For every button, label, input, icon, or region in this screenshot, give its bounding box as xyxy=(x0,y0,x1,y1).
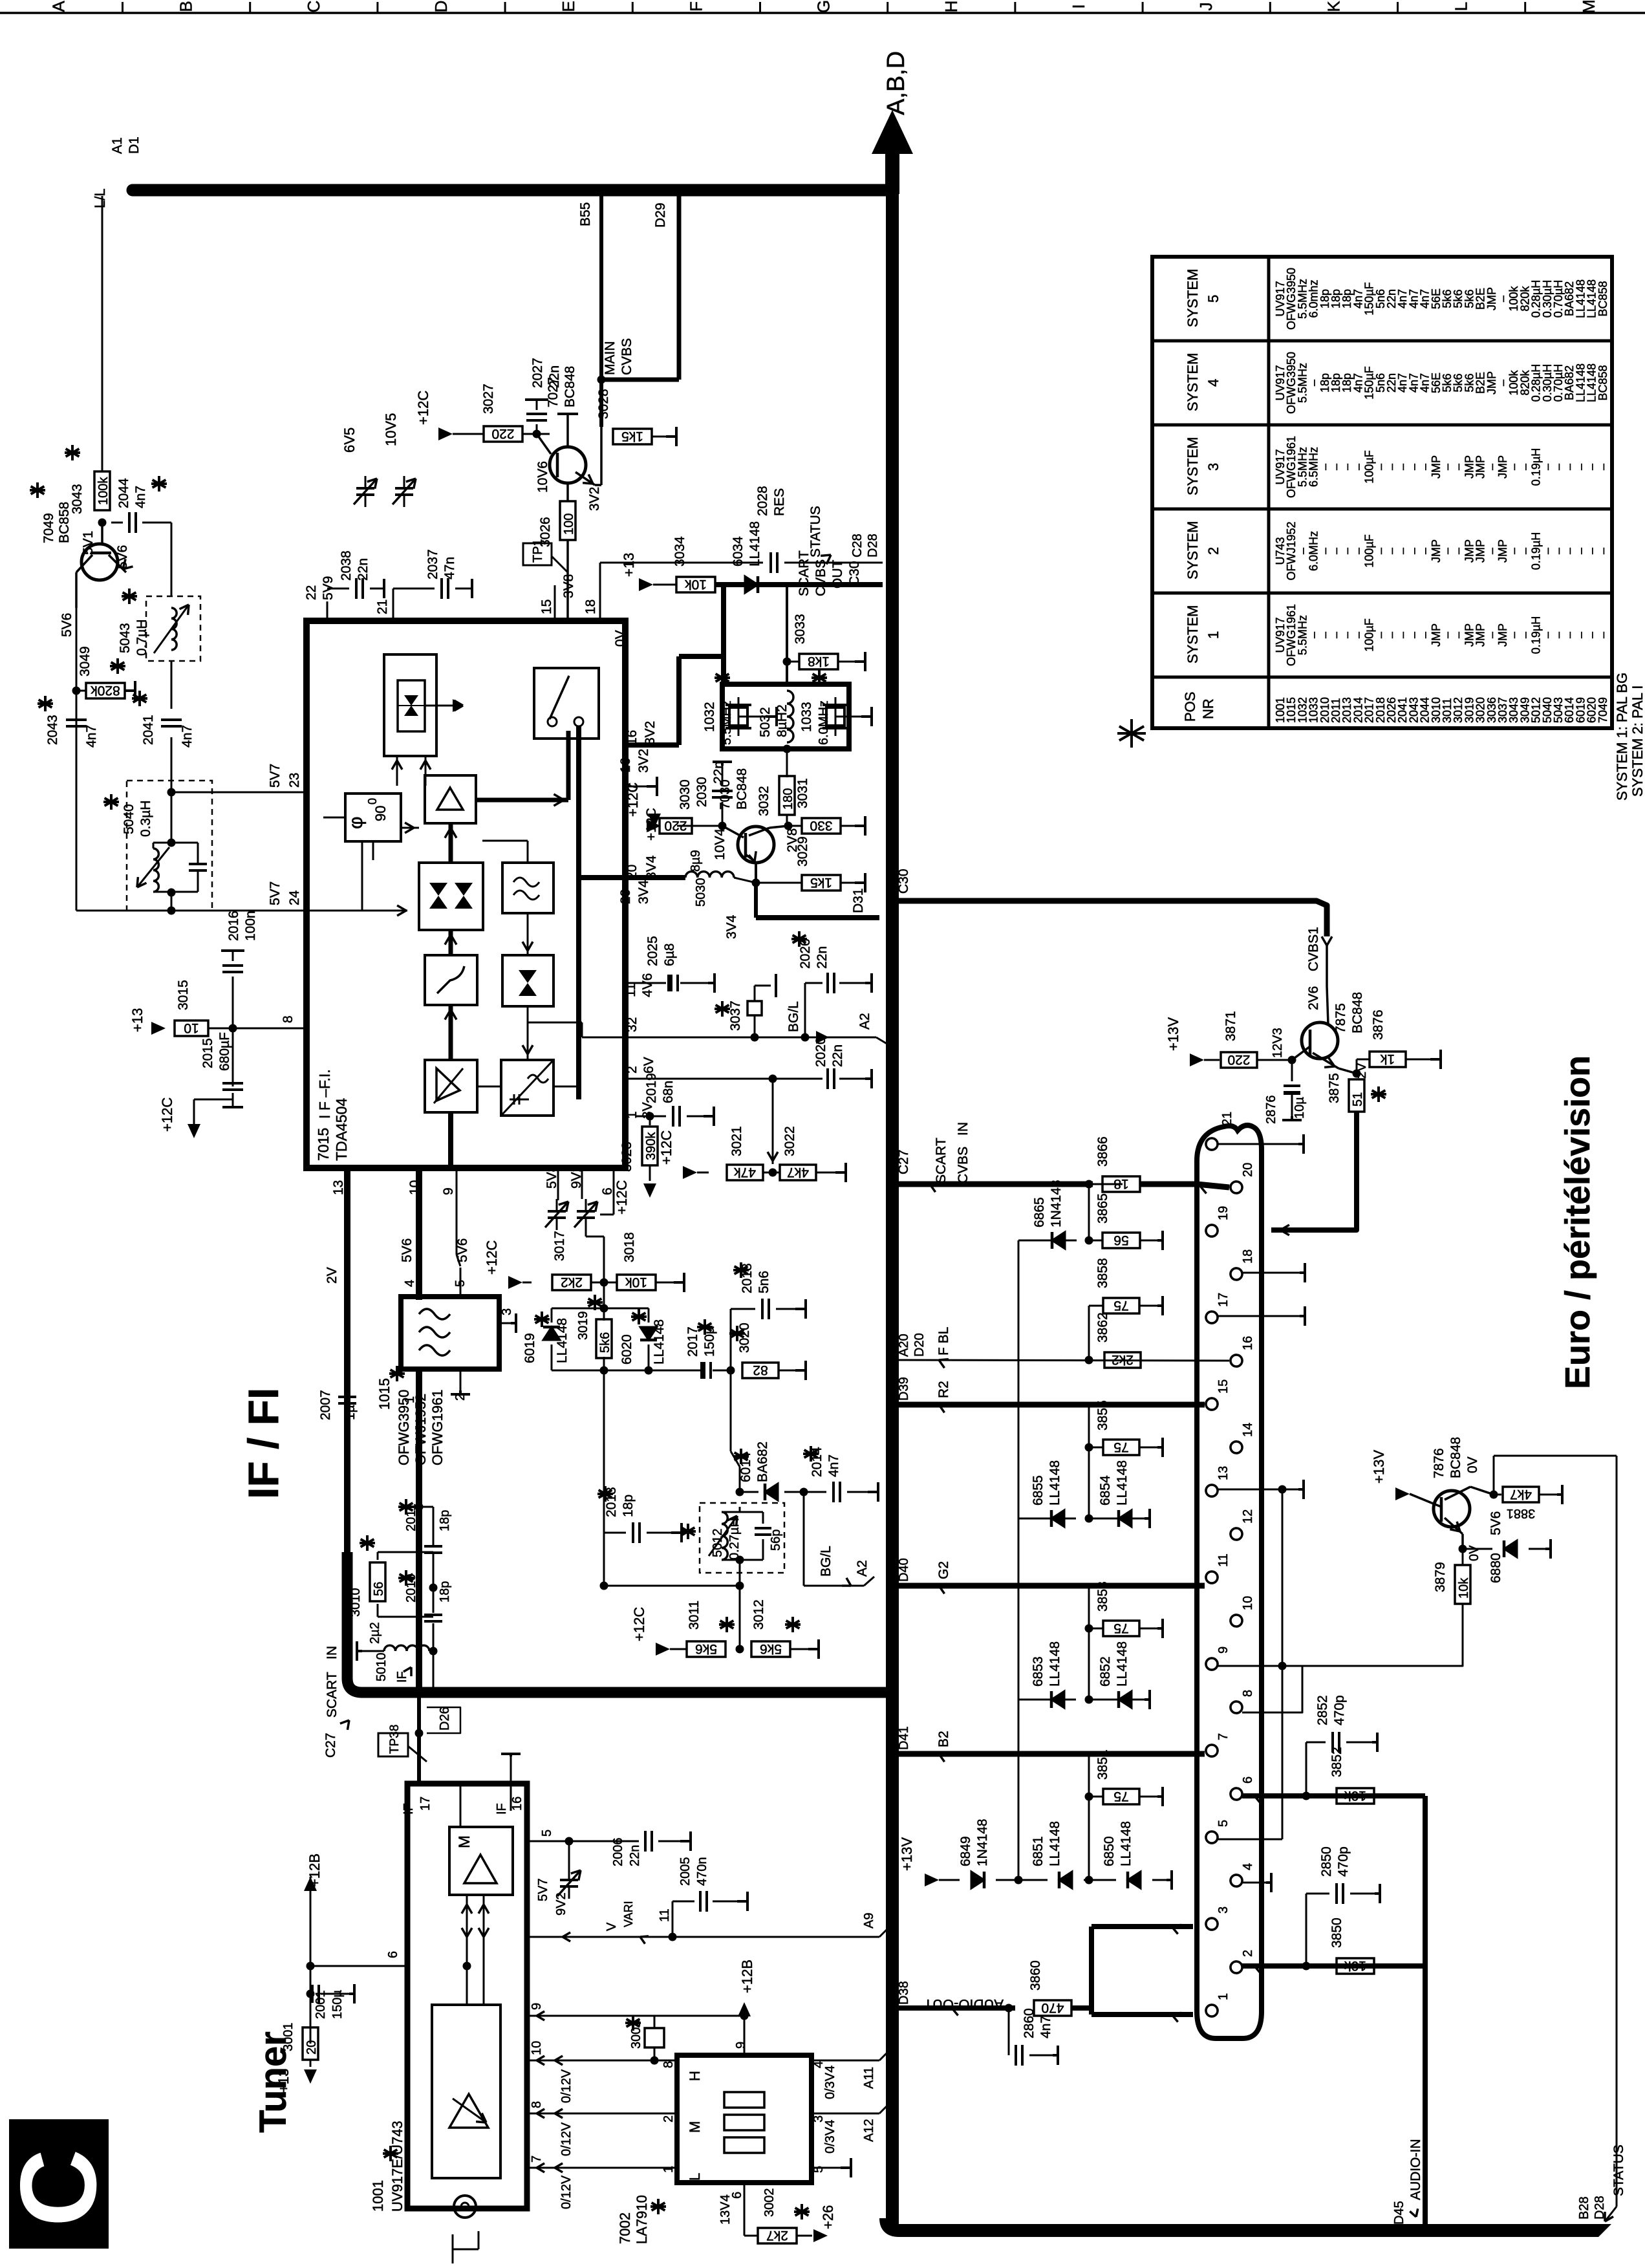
svg-text:6µ8: 6µ8 xyxy=(662,944,677,966)
table header column divider xyxy=(1267,257,1271,728)
svg-text:6V: 6V xyxy=(641,1057,656,1074)
capacitor 2015 680uF electrolytic xyxy=(232,1028,234,1086)
svg-text:6852: 6852 xyxy=(1098,1656,1113,1687)
wire AUDIO-OUT D38 xyxy=(899,2005,1015,2011)
HML pin 6 13V4 3002 xyxy=(744,2183,746,2236)
svg-text:3030: 3030 xyxy=(678,779,693,810)
wire pin 24 5V7 xyxy=(171,892,173,911)
svg-text:3V2: 3V2 xyxy=(587,487,602,511)
svg-text:4: 4 xyxy=(1205,379,1221,387)
power +12B arrow HML xyxy=(740,2012,749,2020)
svg-text:5V6: 5V6 xyxy=(1489,1511,1503,1535)
svg-text:SYSTEM 2: PAL I: SYSTEM 2: PAL I xyxy=(1629,686,1645,797)
bus main vertical xyxy=(886,190,899,2225)
branch D39 thick xyxy=(899,1402,1205,1408)
svg-text:D45: D45 xyxy=(1392,2201,1406,2225)
svg-text:2020: 2020 xyxy=(813,1037,828,1067)
svg-text:C30: C30 xyxy=(847,561,862,586)
svg-text:680µF: 680µF xyxy=(217,1032,232,1071)
svg-text:–: – xyxy=(1597,464,1609,470)
svg-text:4n7: 4n7 xyxy=(133,486,148,508)
resistor 3018 10k xyxy=(617,1275,656,1290)
svg-text:10V4: 10V4 xyxy=(713,828,727,860)
svg-text:5010: 5010 xyxy=(374,1653,389,1682)
svg-text:56: 56 xyxy=(1113,1233,1128,1247)
svg-text:L/L: L/L xyxy=(92,188,108,208)
diode limiter cluster 6019 3019 6020 xyxy=(603,1282,605,1308)
tuner band select pins xyxy=(527,2060,677,2062)
svg-text:+12C: +12C xyxy=(658,1130,674,1165)
power +13V arrow 7875 xyxy=(1190,1053,1204,1066)
resistor 3037 xyxy=(754,1015,756,1037)
capacitor 2013 18p xyxy=(604,1532,626,1534)
svg-text:AUDIO-OUT: AUDIO-OUT xyxy=(924,1996,1004,2013)
svg-text:UV917E/U743: UV917E/U743 xyxy=(389,2121,405,2212)
svg-text:R2: R2 xyxy=(936,1381,951,1398)
power +12B arrow tuner xyxy=(304,1877,317,1891)
svg-text:0.27µH: 0.27µH xyxy=(727,1518,742,1560)
capacitor 2027 22n xyxy=(536,424,538,434)
svg-text:5: 5 xyxy=(540,1830,554,1837)
tuner pin 6 xyxy=(310,1965,407,1967)
svg-text:100n: 100n xyxy=(243,911,258,941)
wire SCART CVBS OUT C30 xyxy=(723,582,883,587)
svg-text:A9: A9 xyxy=(862,1913,876,1928)
svg-text:8: 8 xyxy=(1241,1690,1255,1697)
svg-text:H: H xyxy=(941,1,961,13)
wire SCART vertical 13-9-5 xyxy=(1282,1489,1284,1839)
svg-text:23: 23 xyxy=(287,773,302,788)
svg-text:10k: 10k xyxy=(625,1275,647,1290)
svg-text:F: F xyxy=(686,1,705,12)
rail +13V clamp vertical xyxy=(1018,1240,1020,1880)
svg-text:1N4148: 1N4148 xyxy=(1049,1180,1064,1227)
wire IC pin13 to IF bus xyxy=(344,1171,350,1559)
wire pin 23 5V7 xyxy=(171,792,306,794)
svg-text:7876: 7876 xyxy=(1432,1448,1446,1478)
svg-text:1033: 1033 xyxy=(799,702,814,732)
IC sound filter block xyxy=(502,863,554,913)
svg-text:POS: POS xyxy=(1182,692,1198,722)
svg-text:IF / FI: IF / FI xyxy=(239,1388,287,1499)
node base 7027 xyxy=(522,433,550,435)
svg-text:56: 56 xyxy=(372,1582,386,1596)
svg-text:B55: B55 xyxy=(578,202,593,226)
svg-text:7049: 7049 xyxy=(1597,697,1609,723)
node 12V3 xyxy=(1288,1056,1296,1064)
svg-text:LL4148: LL4148 xyxy=(1048,1821,1062,1866)
wire V VARI A9 xyxy=(527,1936,879,1938)
svg-text:2V6: 2V6 xyxy=(1306,986,1321,1010)
resistor 3030 220 xyxy=(660,818,692,834)
IC video demod block xyxy=(419,863,483,930)
power +13V arrow 7876 xyxy=(1395,1487,1410,1500)
svg-text:5012: 5012 xyxy=(711,1529,725,1558)
diode 6014 BA682 xyxy=(765,1484,778,1500)
svg-text:2876: 2876 xyxy=(1264,1096,1278,1125)
svg-text:330: 330 xyxy=(810,818,832,833)
svg-text:A20: A20 xyxy=(897,1334,911,1357)
svg-text:47k: 47k xyxy=(734,1165,756,1180)
resistor 3855 75 xyxy=(1088,1405,1090,1518)
svg-text:3881: 3881 xyxy=(1507,1506,1536,1520)
svg-text:75: 75 xyxy=(1113,1440,1128,1454)
wire 2044 to 5043 xyxy=(171,523,173,596)
svg-text:16: 16 xyxy=(618,758,633,773)
resistor 3875 51 xyxy=(1349,1079,1364,1112)
wire SCART pin 5 xyxy=(1218,1839,1282,1841)
svg-text:3876: 3876 xyxy=(1371,1010,1386,1040)
svg-text:–: – xyxy=(1597,548,1609,554)
svg-text:STATUS: STATUS xyxy=(1611,2144,1626,2196)
wire SCART pin 9 to 7876 base xyxy=(1218,1665,1282,1667)
svg-text:1: 1 xyxy=(625,1111,640,1119)
svg-text:TDA4504: TDA4504 xyxy=(333,1098,350,1161)
svg-text:6880: 6880 xyxy=(1489,1553,1503,1583)
svg-text:22n: 22n xyxy=(628,1845,642,1866)
svg-text:4n7: 4n7 xyxy=(1038,2016,1053,2038)
power +26 arrow xyxy=(797,2235,812,2237)
svg-text:2: 2 xyxy=(661,2115,676,2122)
svg-text:3858: 3858 xyxy=(1095,1258,1110,1288)
svg-text:5030: 5030 xyxy=(694,878,708,907)
svg-text:5V6: 5V6 xyxy=(59,613,74,637)
svg-text:6865: 6865 xyxy=(1032,1197,1047,1227)
bus bottom horizontal STATUS/audio xyxy=(886,2218,1598,2230)
svg-text:20: 20 xyxy=(618,889,633,904)
wire 5V6 emitter down xyxy=(76,608,78,911)
svg-text:6019: 6019 xyxy=(522,1333,537,1363)
svg-text:75: 75 xyxy=(1113,1789,1128,1804)
diode 6853 LL4148 xyxy=(1018,1699,1076,1701)
inductor 5030 8u9 xyxy=(625,875,685,880)
svg-text:1001: 1001 xyxy=(370,2180,386,2212)
svg-text:LL4148: LL4148 xyxy=(1115,1641,1130,1687)
capacitor 2025 6u8 electrolytic xyxy=(625,982,666,984)
svg-text:BC848: BC848 xyxy=(1448,1437,1463,1478)
inductor 5043 0.7uH dashed box xyxy=(146,596,200,661)
svg-text:3879: 3879 xyxy=(1433,1562,1448,1592)
resistor 3043 100k xyxy=(94,471,110,510)
svg-text:4n7: 4n7 xyxy=(180,725,195,748)
resistor 3028 1k5 xyxy=(601,436,609,437)
inductor 5040 0.3uH dashed box tank xyxy=(127,781,212,911)
svg-text:3V8: 3V8 xyxy=(561,574,576,598)
svg-text:3043: 3043 xyxy=(70,484,85,514)
node 2V emitter xyxy=(1353,1070,1361,1078)
svg-text:100k: 100k xyxy=(96,477,111,505)
svg-text:5.5MHz: 5.5MHz xyxy=(720,700,734,745)
svg-text:B2: B2 xyxy=(936,1731,951,1747)
svg-text:MAIN: MAIN xyxy=(603,341,618,376)
resistor 3032 180 xyxy=(783,745,791,753)
svg-text:3029: 3029 xyxy=(795,836,810,867)
svg-text:14: 14 xyxy=(1241,1423,1255,1437)
diode 6850 LL4148 xyxy=(1089,1879,1116,1881)
IC AGC amp block xyxy=(425,1060,477,1112)
svg-text:CVBS: CVBS xyxy=(813,559,828,596)
svg-text:51: 51 xyxy=(1351,1092,1365,1107)
capacitor 2016 100n xyxy=(232,977,234,1028)
crystal loop thick xyxy=(721,585,726,684)
svg-text:470: 470 xyxy=(1041,2000,1064,2015)
trimmer 5V7 9V2 tuner xyxy=(560,1879,578,1881)
svg-text:+12C: +12C xyxy=(631,1607,647,1641)
svg-text:A2: A2 xyxy=(855,1560,870,1577)
svg-text:11: 11 xyxy=(623,983,638,997)
page sheet label C xyxy=(9,2119,109,2249)
svg-text:3850: 3850 xyxy=(1329,1917,1344,1948)
svg-text:7: 7 xyxy=(530,2155,544,2163)
svg-text:+13V: +13V xyxy=(899,1837,915,1871)
svg-text:+13: +13 xyxy=(621,553,637,577)
svg-text:2017: 2017 xyxy=(685,1326,700,1357)
svg-text:9: 9 xyxy=(734,2042,748,2049)
svg-text:18p: 18p xyxy=(621,1495,636,1517)
branch A20 D20 F BL xyxy=(899,1360,1229,1361)
wire STATUS right vertical xyxy=(1616,1456,1618,2207)
svg-text:SYSTEM: SYSTEM xyxy=(1185,521,1201,579)
svg-text:2041: 2041 xyxy=(141,715,156,745)
svg-text:STATUS: STATUS xyxy=(808,506,823,557)
transistor 7049 BC858 xyxy=(81,544,118,580)
wire AUDIO-IN D45 to bus xyxy=(1423,1966,1428,2225)
capacitor 2860 4n7 xyxy=(1008,2008,1010,2055)
wire 3020 node to 6014 node xyxy=(730,1370,732,1451)
capacitor 2006 22n xyxy=(527,1841,639,1842)
svg-text:11: 11 xyxy=(658,1908,672,1922)
svg-text:13V4: 13V4 xyxy=(718,2194,733,2225)
capacitor 2041 4n7 xyxy=(171,661,173,709)
svg-text:3862: 3862 xyxy=(1095,1312,1110,1343)
svg-text:6034: 6034 xyxy=(731,536,746,567)
resistor 3853 75 xyxy=(1088,1586,1090,1700)
HML right pin 3 A12 xyxy=(812,2113,879,2115)
svg-text:13: 13 xyxy=(331,1180,346,1195)
resistor 3015 10 xyxy=(175,1021,208,1036)
svg-text:2037: 2037 xyxy=(425,549,440,579)
svg-text:+12C: +12C xyxy=(484,1240,500,1275)
svg-text:5k6: 5k6 xyxy=(695,1641,717,1656)
svg-text:3032: 3032 xyxy=(757,786,771,816)
svg-text:V: V xyxy=(605,1922,619,1931)
resistor 3027 220 xyxy=(453,433,483,435)
capacitor 2019 68n xyxy=(636,1116,666,1118)
svg-text:2: 2 xyxy=(1241,1950,1255,1957)
antenna connector xyxy=(454,2196,476,2218)
svg-text:+12C: +12C xyxy=(415,391,431,425)
svg-text:M: M xyxy=(687,2121,703,2133)
IC 7002 LA7910 box xyxy=(677,2055,812,2183)
svg-text:BA682: BA682 xyxy=(755,1442,770,1482)
svg-text:9: 9 xyxy=(441,1187,456,1195)
svg-text:D40: D40 xyxy=(897,1558,911,1582)
svg-text:0/3V4: 0/3V4 xyxy=(823,2066,837,2099)
IC internal wires xyxy=(411,756,412,775)
node 0V emitter xyxy=(1459,1545,1467,1553)
svg-text:22: 22 xyxy=(304,585,319,600)
svg-text:SCART: SCART xyxy=(325,1672,339,1718)
svg-text:8: 8 xyxy=(281,1015,296,1023)
svg-text:7015: 7015 xyxy=(315,1128,332,1161)
svg-text:SYSTEM: SYSTEM xyxy=(1185,353,1201,411)
svg-text:+12B: +12B xyxy=(306,1853,323,1887)
svg-text:10k: 10k xyxy=(1457,1577,1471,1599)
power +12C below 3023 xyxy=(649,1165,651,1181)
resistor 3029 1k5 xyxy=(752,879,760,887)
svg-text:18p: 18p xyxy=(438,1581,452,1603)
svg-text:H: H xyxy=(687,2071,703,2081)
svg-text:1: 1 xyxy=(1205,631,1221,639)
svg-text:2019: 2019 xyxy=(644,1073,659,1103)
resistor 3862 2k2 xyxy=(1085,1356,1093,1365)
svg-text:5043: 5043 xyxy=(118,623,133,653)
svg-text:8: 8 xyxy=(661,2061,676,2068)
svg-text:10k: 10k xyxy=(1344,1788,1366,1803)
table row dividers xyxy=(1152,340,1612,343)
crystal 1032 5.5MHz xyxy=(738,697,740,736)
svg-text:1N4148: 1N4148 xyxy=(975,1819,990,1866)
svg-text:3V2: 3V2 xyxy=(636,749,651,773)
svg-text:I: I xyxy=(1069,4,1088,8)
svg-text:220: 220 xyxy=(664,818,687,833)
wire emitter to B55 xyxy=(595,484,601,486)
svg-text:3034: 3034 xyxy=(672,536,687,567)
tuner inner box lower xyxy=(432,2005,500,2178)
svg-text:–: – xyxy=(1597,632,1609,638)
resistor 3021 47k xyxy=(772,1079,774,1164)
IC AFC out arrow xyxy=(425,705,453,707)
svg-text:1k: 1k xyxy=(1380,1052,1395,1066)
tuner inner IF amp box M xyxy=(449,1827,513,1895)
wire 3875 to SCART pin 19 xyxy=(1271,1112,1357,1230)
svg-text:D20: D20 xyxy=(912,1333,927,1357)
svg-text:LL4148: LL4148 xyxy=(1119,1821,1134,1866)
wire SCART pin 13 14 xyxy=(1218,1489,1282,1491)
svg-text:1µ: 1µ xyxy=(343,1405,358,1420)
testpoint TP1 xyxy=(566,540,569,621)
svg-text:1: 1 xyxy=(661,2166,676,2173)
svg-text:TP1: TP1 xyxy=(531,539,545,563)
svg-text:15: 15 xyxy=(1216,1379,1231,1394)
IC phase block 90deg xyxy=(345,794,401,841)
svg-text:B28: B28 xyxy=(1577,2196,1591,2219)
wire 9 chain down to A2 line xyxy=(603,1370,605,1586)
resistor 3866 18 xyxy=(1102,1176,1140,1192)
capacitor 2852 470p xyxy=(1302,1792,1311,1800)
trimmer caps 5V8 9V2 below IC xyxy=(548,1210,566,1213)
tuner 1001 box xyxy=(407,1784,527,2209)
svg-text:19: 19 xyxy=(1216,1206,1231,1220)
power +12C to 3017 xyxy=(508,1276,522,1289)
svg-text:D28: D28 xyxy=(866,534,880,557)
svg-text:20: 20 xyxy=(1241,1163,1255,1177)
svg-text:18: 18 xyxy=(1241,1249,1255,1264)
svg-text:2005: 2005 xyxy=(678,1857,693,1886)
inductor 5010 2u2 xyxy=(429,1647,438,1656)
wire pin 2 audio 3850 xyxy=(1242,1963,1425,1969)
diode 6034 LL4148 xyxy=(745,576,758,593)
svg-text:3V4: 3V4 xyxy=(636,880,651,904)
svg-text:D1: D1 xyxy=(127,136,142,154)
wire SCART pin 21 ground xyxy=(1218,1143,1298,1145)
node MAIN CVBS xyxy=(597,376,606,384)
capacitor 2876 10u xyxy=(1291,1060,1293,1081)
svg-text:2850: 2850 xyxy=(1319,1846,1334,1877)
wire L/L down to 3043 xyxy=(102,196,103,471)
svg-text:BC848: BC848 xyxy=(563,366,577,407)
svg-text:1k5: 1k5 xyxy=(810,875,832,890)
svg-text:BG/L: BG/L xyxy=(819,1546,833,1577)
diode 6852 LL4148 xyxy=(1089,1699,1145,1701)
transistor 7030 BC848 xyxy=(738,826,774,863)
svg-text:+26: +26 xyxy=(820,2205,836,2229)
svg-text:A1: A1 xyxy=(110,137,125,154)
resistor 3017 2k2 xyxy=(522,1282,532,1284)
svg-text:SCART: SCART xyxy=(934,1138,949,1183)
capacitor 2011 18p xyxy=(378,1551,433,1553)
wire D31 collector to bus xyxy=(754,883,758,918)
svg-text:IF: IF xyxy=(395,1671,409,1683)
svg-text:D41: D41 xyxy=(897,1726,911,1750)
trimmer caps 6V5 10V5 xyxy=(356,487,374,490)
svg-text:15: 15 xyxy=(539,599,554,614)
table asterisk xyxy=(1119,726,1144,740)
svg-text:D: D xyxy=(431,1,451,13)
svg-text:0: 0 xyxy=(366,798,379,805)
svg-text:2016: 2016 xyxy=(226,911,241,941)
svg-text:470n: 470n xyxy=(695,1857,709,1886)
capacitor 2005 470n xyxy=(672,1901,674,1937)
ruler tick marks xyxy=(122,2,124,13)
svg-text:75: 75 xyxy=(1113,1621,1128,1636)
power +13 arrow tuner xyxy=(310,2060,312,2067)
svg-text:2030: 2030 xyxy=(694,777,709,807)
svg-text:90: 90 xyxy=(372,806,389,821)
svg-text:2860: 2860 xyxy=(1022,2008,1037,2038)
resistor 3879 10k xyxy=(1462,1549,1464,1565)
svg-text:75: 75 xyxy=(1113,1298,1128,1313)
diode 6851 LL4148 xyxy=(1018,1879,1048,1881)
capacitor 2030 22n xyxy=(677,825,722,827)
diode 6865 1N4148 and resistor 3865 56 xyxy=(1088,1184,1090,1240)
svg-text:3020: 3020 xyxy=(737,1323,752,1353)
svg-text:82: 82 xyxy=(753,1363,768,1377)
wire trimmers to 3017 node xyxy=(603,1237,605,1308)
svg-text:D39: D39 xyxy=(897,1377,911,1401)
svg-text:6: 6 xyxy=(1241,1777,1255,1784)
svg-text:BC848: BC848 xyxy=(1350,992,1365,1033)
svg-text:3010: 3010 xyxy=(349,1588,363,1617)
svg-text:0/12V: 0/12V xyxy=(559,2069,574,2103)
svg-text:22n: 22n xyxy=(830,1044,845,1067)
svg-text:13: 13 xyxy=(1216,1466,1231,1480)
capacitor 2014 4n7 xyxy=(804,1491,826,1493)
svg-text:2k2: 2k2 xyxy=(561,1275,583,1290)
tuner mixer to IF out xyxy=(510,1784,512,1811)
svg-text:C27: C27 xyxy=(896,1149,911,1174)
svg-text:4V6: 4V6 xyxy=(640,973,655,997)
svg-text:+12C: +12C xyxy=(159,1097,175,1132)
svg-text:E: E xyxy=(559,1,578,12)
svg-text:VARI: VARI xyxy=(622,1901,635,1927)
svg-text:2028: 2028 xyxy=(755,486,770,516)
svg-text:3049: 3049 xyxy=(78,646,92,676)
svg-text:G: G xyxy=(814,0,833,13)
svg-text:3028: 3028 xyxy=(596,389,611,419)
resistor 3022 4k7 xyxy=(763,1172,780,1174)
resistor 3002 2k7 xyxy=(758,2228,797,2243)
